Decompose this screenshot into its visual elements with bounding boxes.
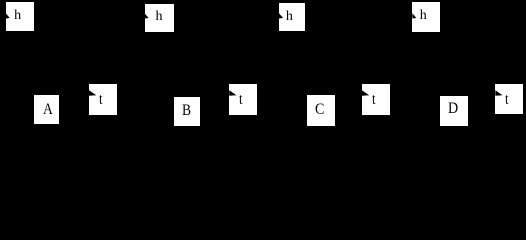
box h3	[279, 3, 305, 31]
arrowhead into t4	[495, 90, 502, 96]
box t4	[495, 84, 523, 115]
box h1	[6, 2, 34, 31]
label t1	[99, 92, 103, 108]
label D	[448, 101, 458, 117]
box h2	[145, 4, 174, 33]
box A	[34, 95, 59, 124]
box t1	[89, 84, 117, 115]
box t2	[229, 84, 257, 116]
label h3	[286, 10, 293, 24]
label C	[315, 102, 324, 118]
box B	[174, 97, 200, 127]
arrowhead into h1	[6, 13, 10, 18]
arrowhead into t1	[89, 90, 96, 96]
arrowhead into t3	[362, 90, 369, 96]
label B	[182, 103, 191, 119]
label t3	[372, 92, 376, 108]
arrowhead into h4	[412, 13, 416, 18]
box C	[307, 95, 335, 126]
arrowhead into t2	[229, 90, 236, 96]
box t3	[362, 84, 391, 115]
label t4	[505, 92, 509, 108]
label h2	[156, 10, 163, 24]
arrowhead into h3	[279, 13, 283, 18]
box D	[440, 96, 468, 127]
arrowhead into h2	[145, 13, 149, 18]
label h1	[14, 9, 21, 23]
label t2	[239, 92, 243, 108]
box h4	[412, 2, 439, 31]
label h4	[420, 9, 427, 23]
label A	[43, 102, 53, 118]
